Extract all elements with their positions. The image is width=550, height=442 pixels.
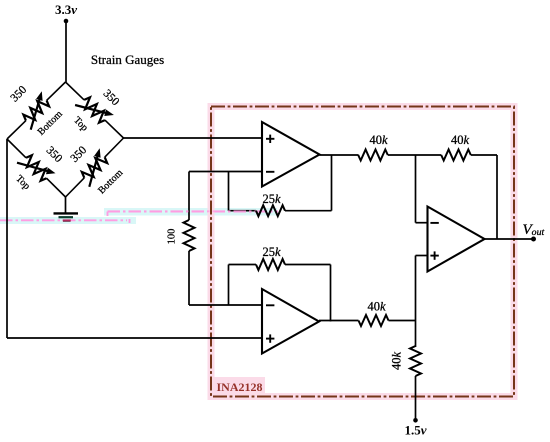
wire U1 feedback bottom <box>229 210 257 212</box>
svg-text:350: 350 <box>9 84 30 105</box>
wire U2 output <box>319 320 359 322</box>
wire bridge left down <box>6 139 8 338</box>
INA2128 boundary <box>211 107 514 397</box>
svg-text:Top: Top <box>71 115 90 134</box>
svg-text:Strain Gauges: Strain Gauges <box>91 52 164 67</box>
wire bridge bottom to ground <box>65 197 67 213</box>
resistor R8 40k <box>410 346 421 376</box>
svg-text:25k: 25k <box>262 192 281 206</box>
svg-text:1.5v: 1.5v <box>404 423 426 438</box>
wire left to U2 + input <box>7 337 262 339</box>
wire R8 to 1.5v <box>415 376 417 420</box>
ghost artifact cyan band upper <box>104 208 277 216</box>
svg-text:Vout: Vout <box>523 222 545 238</box>
wire U2 feedback left riser <box>228 265 230 306</box>
wire U1 output <box>320 154 359 156</box>
resistor R6 40k feedback <box>441 150 471 161</box>
svg-text:40k: 40k <box>451 133 470 147</box>
wire node down <box>415 321 417 348</box>
svg-text:350: 350 <box>44 144 65 165</box>
svg-text:40k: 40k <box>369 133 388 147</box>
svg-text:Bottom: Bottom <box>96 167 125 196</box>
wire U1 - input <box>189 171 262 173</box>
svg-text:350: 350 <box>101 88 122 109</box>
ghost artifact pink dash overlay <box>108 210 279 212</box>
svg-text:100: 100 <box>167 229 178 245</box>
terminal 3.3v <box>64 19 69 24</box>
op-amp U3 <box>428 207 485 272</box>
wire U1 feedback left drop <box>228 172 230 211</box>
resistor R7 40k <box>359 315 389 326</box>
svg-text:40k: 40k <box>367 300 386 314</box>
wire U3 + input <box>416 255 428 257</box>
svg-text:25k: 25k <box>262 245 281 259</box>
terminal Vout <box>531 237 536 242</box>
resistor RG 100 leads <box>188 172 190 221</box>
strain gauge R2 top-right (Top) <box>66 82 85 100</box>
U2 - symbol <box>266 304 274 306</box>
wire U1 feedback right riser <box>331 155 333 211</box>
INA2128 box halo text <box>213 377 265 393</box>
U2 + symbol <box>266 338 274 340</box>
svg-text:INA2128: INA2128 <box>217 380 263 394</box>
wire U2 - input <box>189 304 262 306</box>
wire R5 to R6 <box>388 154 442 156</box>
wire U2 feedback right drop <box>330 265 332 322</box>
svg-text:350: 350 <box>69 144 90 165</box>
ghost artifact pink dash upper <box>108 211 279 213</box>
wire U2 feedback top <box>229 264 257 266</box>
INA2128 box halo <box>211 107 514 397</box>
ground <box>54 212 79 214</box>
U3 - symbol <box>430 222 438 224</box>
resistor 25k U1 feedback <box>256 205 285 216</box>
ghost artifact pink dash lower <box>0 219 127 221</box>
wire bridge right to U1 + input <box>124 137 263 139</box>
op-amp U1 <box>262 122 320 187</box>
strain gauge R4 bottom-right (Bottom) <box>66 178 85 197</box>
wire 3.3v to bridge top <box>65 21 67 82</box>
svg-text:40k: 40k <box>390 352 404 371</box>
U1 + symbol <box>266 138 274 140</box>
strain gauge R1 top-left (Bottom) <box>7 121 26 139</box>
resistor RG 100 <box>184 220 195 251</box>
wire R7 to node <box>389 320 416 322</box>
terminal 1.5v <box>413 418 418 423</box>
resistor 25k U2 feedback <box>256 259 285 270</box>
wire node to U3 - input <box>415 155 417 223</box>
op-amp U2 <box>262 289 319 354</box>
ghost artifact cyan band lower <box>0 217 136 224</box>
wire R6 to output riser <box>471 154 497 156</box>
svg-text:Top: Top <box>13 173 32 192</box>
ghost artifact pink stub <box>107 212 109 217</box>
strain gauge R3 bottom-left (Top) <box>7 139 26 158</box>
resistor R5 40k <box>358 150 388 161</box>
U3 + symbol <box>430 255 438 257</box>
wire output riser <box>496 155 498 239</box>
U1 - symbol <box>266 171 274 173</box>
svg-text:3.3v: 3.3v <box>55 2 77 17</box>
wire U3 output <box>485 238 535 240</box>
